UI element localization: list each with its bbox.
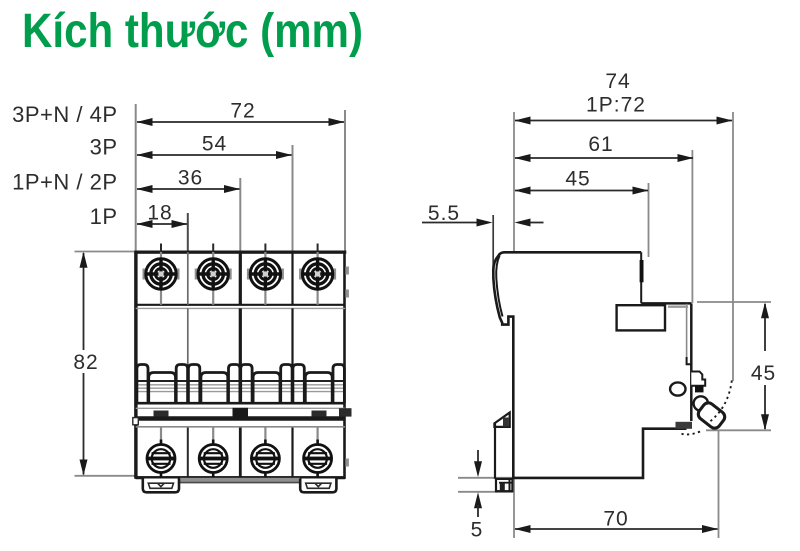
- toggle posts divider1: [176, 365, 187, 404]
- svg-text:5: 5: [471, 519, 484, 542]
- pole divider x=240: [239, 252, 242, 305]
- pivot hole: [670, 382, 685, 395]
- toggle handle pole1: [149, 373, 176, 404]
- bottom section top gray line: [136, 426, 345, 428]
- wire dimension 54: [137, 154, 292, 156]
- bar clip 2: [233, 408, 249, 417]
- screw terminal pole2 bottom: [199, 427, 227, 478]
- bar clip 3: [312, 411, 327, 417]
- label window: [617, 305, 665, 330]
- svg-text:18: 18: [147, 202, 172, 225]
- screw terminal pole4 top: [299, 252, 336, 305]
- body left edge thick: [134, 252, 137, 478]
- svg-text:74: 74: [605, 70, 630, 93]
- toggle handle knob: [696, 401, 727, 431]
- toggle internal gray lines: [137, 384, 344, 386]
- lower clip left edge: [494, 424, 496, 479]
- wire dimension 18: [137, 223, 187, 225]
- toggle post edge L: [137, 365, 148, 404]
- wire tick 5 top: [458, 477, 514, 479]
- handle interlink bar top line: [136, 402, 345, 405]
- toggle bracket bump: [691, 372, 705, 386]
- wire extension 61 right (x=694): [691, 150, 693, 303]
- toggle posts divider2: [229, 365, 240, 404]
- wire extension 45 right (x=648.5): [648, 183, 650, 257]
- toggle pivot boss: [694, 396, 708, 410]
- wire extension line left (x=136): [135, 104, 137, 252]
- wire dimension 74: [515, 120, 732, 122]
- toggle posts divider3: [281, 365, 292, 404]
- svg-text:Kích thước (mm): Kích thước (mm): [22, 4, 363, 58]
- handle interlink bar thick bottom: [136, 416, 345, 421]
- terminal shaft ticks above body: [160, 244, 162, 253]
- din clip right: [300, 479, 336, 493]
- wire extension line 54 (x=292): [292, 145, 294, 252]
- breaker side body outline: [493, 252, 686, 478]
- recess bar between clips: [180, 478, 300, 482]
- lower clip hook: [494, 413, 509, 427]
- wire extension line 36 (x=240): [239, 178, 241, 252]
- DIN clips front: [143, 478, 337, 493]
- screw terminal pole1 top: [143, 252, 180, 305]
- svg-text:3P: 3P: [90, 135, 118, 160]
- breaker body outline: [136, 252, 345, 477]
- terminal screws top: [143, 252, 337, 305]
- toggle handle pole3: [253, 373, 280, 404]
- toggle handles row: [133, 267, 352, 478]
- bar clip right edge: [339, 408, 352, 416]
- bottom terminal screws: [147, 427, 332, 478]
- dotted travel arc: [710, 381, 732, 422]
- screw terminal pole4 bottom: [303, 427, 331, 478]
- svg-text:1P+N / 2P: 1P+N / 2P: [12, 170, 117, 195]
- front face vertical: [690, 303, 693, 421]
- screw terminal pole3 bottom: [251, 427, 279, 478]
- wire dimension 45: [515, 190, 648, 192]
- wire extension line 72 (x=345): [344, 110, 346, 252]
- wire extension 74 right (x=733): [732, 112, 734, 381]
- wire dimension 82 vertical: [83, 253, 85, 350]
- toggle post edge R: [333, 365, 344, 404]
- svg-text:1P: 1P: [90, 204, 118, 229]
- handle interlink bar gray line: [136, 407, 345, 409]
- wire extension 45R bottom (y=430.3): [706, 429, 771, 431]
- right edge gray tabs: [345, 267, 349, 275]
- bar clip 1: [154, 411, 169, 417]
- svg-text:82: 82: [73, 351, 98, 374]
- wire tick 82 bottom: [75, 475, 137, 477]
- left edge white notch: [133, 418, 139, 425]
- wire tick 5 bottom: [458, 491, 513, 493]
- toggle bracket dark square: [695, 386, 704, 393]
- svg-text:45: 45: [751, 362, 776, 385]
- right edge notch overlay: [640, 260, 644, 282]
- screw terminal pole3 top: [247, 252, 284, 305]
- wire dimension 72: [137, 121, 344, 123]
- svg-text:54: 54: [202, 133, 227, 156]
- screw terminal pole2 top: [195, 252, 232, 305]
- svg-text:3P+N / 4P: 3P+N / 4P: [12, 102, 117, 127]
- inner wall line: [686, 304, 688, 357]
- wire tick 82 top: [75, 251, 136, 253]
- wire dimension 36: [137, 188, 240, 190]
- svg-text:61: 61: [588, 133, 613, 156]
- top section divider line: [136, 304, 345, 306]
- wire extension 70 right (x=718.5): [718, 430, 720, 538]
- svg-text:36: 36: [178, 167, 203, 190]
- din clip left: [143, 479, 179, 493]
- toggle internal line dark: [137, 380, 344, 382]
- svg-text:5.5: 5.5: [428, 202, 460, 225]
- wire extension left (x=514): [513, 112, 515, 318]
- toggle handle pole4: [305, 373, 332, 404]
- wire tick 5.5 (x=493.2): [492, 215, 494, 279]
- svg-text:1P:72: 1P:72: [586, 94, 646, 117]
- body bottom edge thick: [136, 476, 345, 479]
- front step horizontal: [641, 302, 691, 305]
- screw terminal pole1 bottom: [147, 427, 175, 478]
- flange inner line: [496, 256, 502, 317]
- body top edge thick: [134, 251, 346, 254]
- wire dimension 61: [515, 157, 693, 159]
- wire dimension 70: [515, 528, 718, 530]
- svg-text:45: 45: [565, 168, 590, 191]
- wire dimension 5 vertical: [477, 450, 479, 465]
- toggle handle pole2: [201, 373, 228, 404]
- pole divider x=188: [187, 252, 189, 305]
- gray shade under step: [668, 306, 688, 308]
- wire extension 45R top (y=302): [697, 301, 771, 303]
- svg-text:72: 72: [230, 100, 255, 123]
- toggle foot dark rect: [676, 422, 693, 429]
- svg-text:70: 70: [603, 508, 628, 531]
- wire extension line 18 (x=188): [187, 213, 189, 252]
- right edge upper: [640, 252, 642, 303]
- lower clip foot: [496, 479, 512, 491]
- wire dimension 45 right vertical: [764, 304, 766, 351]
- pole divider x=292: [291, 252, 293, 305]
